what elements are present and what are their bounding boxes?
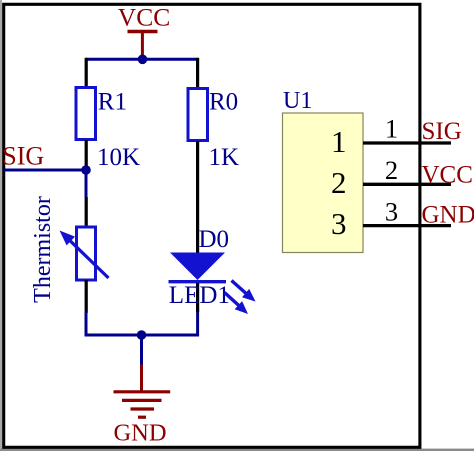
svg-text:3: 3 — [385, 197, 398, 227]
svg-text:D0: D0 — [199, 226, 230, 253]
svg-text:1: 1 — [331, 124, 347, 159]
svg-text:U1: U1 — [283, 88, 312, 114]
svg-text:GND: GND — [113, 420, 166, 447]
svg-text:SIG: SIG — [422, 118, 462, 145]
svg-text:LED1: LED1 — [169, 282, 230, 309]
svg-text:R1: R1 — [98, 89, 127, 116]
svg-text:1K: 1K — [209, 144, 240, 171]
svg-text:1: 1 — [385, 114, 398, 144]
svg-text:Thermistor: Thermistor — [30, 196, 56, 303]
svg-text:VCC: VCC — [118, 3, 170, 32]
svg-text:VCC: VCC — [422, 162, 473, 189]
svg-text:R0: R0 — [209, 89, 238, 116]
svg-text:2: 2 — [331, 165, 347, 200]
svg-text:GND: GND — [422, 202, 474, 229]
svg-text:SIG: SIG — [2, 142, 44, 171]
svg-text:2: 2 — [385, 155, 398, 185]
svg-text:10K: 10K — [97, 144, 140, 171]
svg-text:3: 3 — [331, 206, 347, 241]
